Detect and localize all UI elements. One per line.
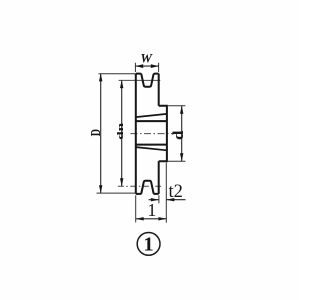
dimension t2 left line and arrow [149, 199, 159, 201]
dimension D extension lines [97, 74, 136, 193]
pulley outline left face [135, 74, 137, 194]
dimension l arrow right [158, 217, 166, 220]
svg-text:dn: dn [116, 123, 126, 140]
svg-text:1: 1 [147, 200, 156, 220]
svg-text:d: d [171, 130, 187, 140]
dimension D line [100, 74, 102, 194]
dimension W extension lines [135, 63, 158, 72]
bushing taper line lower [136, 147, 167, 150]
dimension W arrow left [135, 64, 143, 68]
dimension D arrow top [99, 73, 102, 81]
dimension l extension line left [135, 195, 137, 222]
dimension d extension lines [167, 106, 186, 162]
dimension d arrow top [180, 106, 183, 114]
dimension t2 right line and arrow [166, 199, 185, 201]
dimension dn arrow top [120, 80, 123, 88]
svg-text:1: 1 [143, 234, 153, 256]
hub boss step [159, 106, 167, 161]
rim right face upper segment [158, 74, 160, 106]
rim bottom face with V-groove [136, 181, 159, 194]
centerline axis [131, 133, 175, 135]
rim top face with V-groove [136, 74, 159, 87]
svg-text:W: W [140, 51, 153, 66]
svg-text:D: D [87, 129, 103, 136]
bushing taper line upper [136, 114, 167, 117]
bore top edge [136, 120, 167, 122]
dimension d line [181, 106, 183, 161]
svg-text:t2: t2 [169, 182, 183, 202]
dimension l arrow left [136, 217, 144, 220]
datum pitch line top [119, 79, 161, 81]
dimension l line [136, 218, 167, 220]
rim right face lower segment [158, 161, 160, 194]
dimension W arrow right [151, 64, 159, 68]
callout balloon circle 1 [137, 233, 160, 256]
dimension t2 extension lines [159, 163, 166, 223]
bore bottom edge [136, 144, 167, 146]
dimension dn arrow bottom [120, 178, 123, 186]
dimension W line [135, 65, 158, 67]
dimension d arrow bottom [180, 153, 183, 161]
dimension dn line [121, 80, 123, 186]
dimension D arrow bottom [99, 185, 102, 193]
datum pitch line bottom [118, 185, 161, 187]
